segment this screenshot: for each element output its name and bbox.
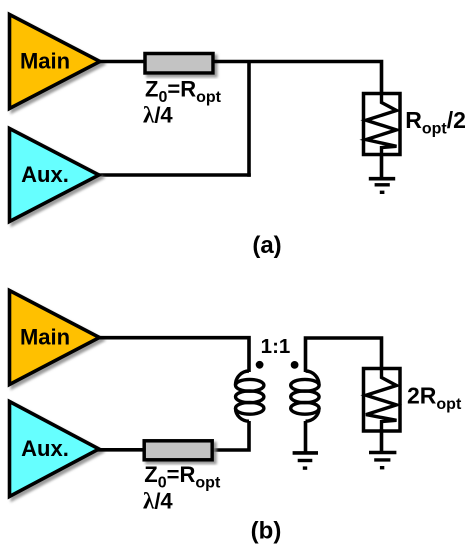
transformer primary coil L1 — [235, 371, 263, 421]
amplifier Aux (b) — [10, 402, 100, 497]
wire R1 to ground — [380, 154, 384, 179]
svg-text:Aux.: Aux. — [21, 436, 69, 461]
wire secondary bottom to ground — [304, 421, 308, 453]
svg-text:λ/4: λ/4 — [143, 103, 173, 128]
svg-text:Main: Main — [20, 48, 70, 73]
svg-text:Aux.: Aux. — [21, 162, 69, 187]
amplifier Aux (a) — [10, 129, 100, 222]
svg-text:(a): (a) — [252, 232, 281, 259]
svg-text:1:1: 1:1 — [261, 335, 291, 358]
resistor R2 zigzag — [366, 369, 397, 430]
wire Aux output to TL2 — [97, 448, 146, 452]
resistor R1 zigzag — [366, 94, 397, 156]
amplifier Main (b) — [10, 291, 100, 385]
ground G2 — [293, 453, 318, 468]
wire TL1 to load corner — [213, 62, 382, 95]
resistor R1 box — [364, 94, 401, 155]
wire TL2 to transformer primary bottom — [211, 421, 249, 450]
transmission line TL1 — [145, 54, 213, 74]
resistor R2 box — [364, 369, 401, 432]
svg-text:Main: Main — [20, 324, 70, 349]
wire R2 to ground — [380, 429, 384, 453]
transformer secondary coil L2 — [291, 371, 319, 421]
wire transformer secondary top to load R2 — [306, 338, 382, 372]
wire Aux output to junction — [97, 173, 251, 177]
svg-text:(b): (b) — [251, 518, 282, 545]
wire Main output to TL1 — [98, 60, 146, 64]
wire junction vertical (a) — [247, 62, 251, 177]
wire Main output to transformer primary top — [98, 338, 250, 372]
ground G3 — [369, 453, 396, 468]
polarity dot secondary — [291, 361, 299, 369]
polarity dot primary — [256, 361, 264, 369]
svg-text:λ/4: λ/4 — [143, 489, 173, 514]
amplifier Main (a) — [10, 15, 101, 109]
ground G1 — [369, 179, 395, 193]
transmission line TL2 — [144, 441, 212, 460]
